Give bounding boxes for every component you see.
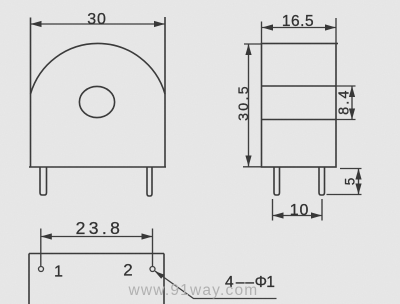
- dim 10 extension left: [272, 199, 274, 221]
- dim 10 right arrow: [311, 212, 322, 218]
- scan noise overlay: [0, 0, 1, 1]
- dim 30.5 bottom arrow: [245, 156, 251, 167]
- dim 10 left arrow: [273, 212, 284, 218]
- dim 8.4 top arrow: [349, 86, 355, 97]
- front view right edge + extension line: [164, 17, 166, 167]
- dim 8.4 line: [351, 86, 353, 120]
- dim 30 right arrow: [154, 21, 165, 27]
- dim 23.8 line: [41, 236, 153, 238]
- dim 5 extension top: [340, 168, 362, 170]
- dim 8.4 extension bottom: [335, 119, 356, 121]
- dim 8.4 extension top: [335, 85, 356, 87]
- dim 23.8 right arrow: [142, 233, 153, 239]
- side view left pin: [274, 167, 280, 195]
- front view dome arc: [31, 43, 166, 94]
- pin 1 hole circle: [39, 267, 44, 272]
- front view right pin: [147, 167, 152, 196]
- dim 23.8 extension left: [40, 229, 42, 267]
- side view body rectangle: [262, 44, 337, 168]
- bottom view right edge: [163, 254, 165, 304]
- dim 30.5 extension top: [244, 43, 262, 45]
- dim 30.5 line: [248, 44, 250, 167]
- leader line from pin 2: [155, 271, 277, 299]
- front view bottom edge: [29, 166, 166, 168]
- dim 5 line: [358, 169, 360, 195]
- dim 16.5 right arrow: [325, 24, 336, 30]
- leader arrowhead: [155, 271, 165, 279]
- dim 23.8 left arrow: [41, 233, 52, 239]
- dim 30.5 extension bottom: [243, 166, 262, 168]
- bottom view top edge: [29, 253, 164, 255]
- front view left pin: [40, 167, 47, 195]
- dim 30.5 top arrow: [245, 44, 251, 55]
- dim 8.4 bottom arrow: [349, 109, 355, 120]
- side view right pin: [319, 167, 325, 195]
- side view top edge overshoot: [336, 43, 338, 45]
- dim 5 extension bottom: [327, 194, 362, 196]
- front view left edge + extension line: [30, 18, 32, 168]
- pin 2 hole circle: [150, 267, 155, 272]
- dim 30 line: [31, 23, 166, 25]
- dim 16.5 extension right: [335, 18, 337, 44]
- dim 16.5 left arrow: [262, 24, 273, 30]
- dim 30 left arrow: [31, 21, 42, 27]
- front view center hole: [79, 86, 114, 117]
- dim 5 bottom arrow: [355, 184, 361, 195]
- dim 16.5 extension left: [261, 22, 263, 44]
- dim 10 extension right: [321, 199, 323, 221]
- bottom view left edge: [28, 254, 30, 304]
- dim 10 line: [273, 215, 323, 217]
- side view divider line 1: [262, 85, 337, 87]
- side view divider line 2: [262, 119, 337, 121]
- dim 23.8 extension right: [152, 229, 154, 267]
- dim 16.5 line: [262, 27, 337, 29]
- dim 5 top arrow: [355, 169, 361, 180]
